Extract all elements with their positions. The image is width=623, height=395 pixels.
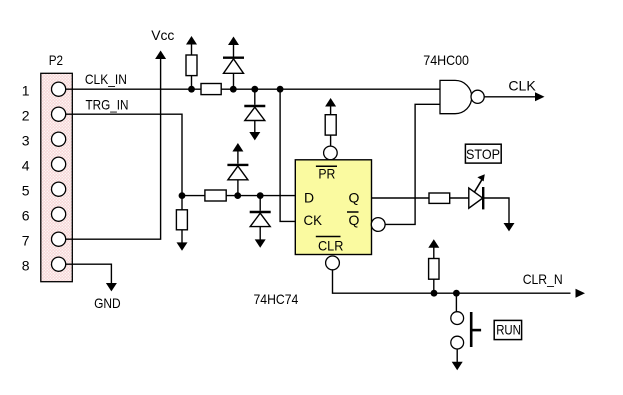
wire (455, 293, 457, 312)
cathode bar (482, 187, 484, 209)
wire (181, 230, 183, 244)
U2 CLR inversion bubble (326, 256, 340, 270)
actuator bar (470, 312, 473, 347)
wire (237, 180, 239, 196)
svg-text:D: D (304, 190, 314, 206)
diode D2 clamp to GND (244, 89, 265, 140)
anode triangle (224, 59, 244, 73)
power Vcc arrow (325, 98, 336, 107)
wire CLK_IN pin1 to NAND top input (66, 88, 440, 90)
wire (259, 227, 261, 241)
wire (259, 196, 261, 211)
power Vcc arrow (428, 239, 439, 248)
svg-text:STOP: STOP (466, 146, 500, 162)
arrow CLR_N (576, 289, 586, 298)
pin 4 (22, 157, 66, 174)
svg-text:P2: P2 (49, 52, 63, 68)
U2 PR inversion bubble (324, 146, 338, 160)
svg-text:4: 4 (22, 158, 30, 174)
svg-text:Q: Q (349, 212, 360, 228)
contact circle (451, 312, 464, 325)
anode triangle (245, 107, 265, 120)
resistor body (325, 115, 336, 135)
wire CLK_IN down to CK input (280, 89, 295, 221)
pin 1 (22, 82, 66, 99)
power Vcc arrow (228, 37, 239, 46)
resistor body (186, 55, 197, 76)
ground arrow pin8 (106, 283, 117, 291)
svg-text:CK: CK (304, 212, 323, 228)
wire TRG_IN pin2 down to D line (66, 114, 182, 195)
cathode bar (227, 164, 248, 166)
cathode bar (223, 57, 244, 59)
nand gate U1 74HC00 (440, 80, 484, 113)
junction node (188, 86, 195, 93)
wire (181, 196, 183, 210)
wire pin7 to Vcc (66, 58, 161, 239)
pin 2 (22, 107, 66, 124)
svg-text:1: 1 (22, 83, 30, 99)
wire (191, 76, 193, 90)
svg-text:TRG_IN: TRG_IN (86, 97, 129, 113)
LED D5 (469, 174, 485, 209)
cathode bar (250, 211, 271, 213)
power Vcc arrow (186, 36, 197, 45)
pin 8 (22, 257, 66, 274)
junction node (234, 192, 241, 199)
junction node (230, 86, 237, 93)
svg-text:CLK: CLK (508, 78, 536, 94)
switch S1 RUN pushbutton (451, 293, 481, 370)
ground arrow (255, 239, 266, 247)
diode D3 clamp to Vcc (227, 143, 248, 196)
wire (191, 44, 193, 56)
resistor R7 LED series (429, 193, 450, 203)
label RUN (494, 320, 521, 339)
svg-text:2: 2 (22, 108, 30, 124)
wire Qbar to NAND bottom input (385, 104, 440, 224)
wire (456, 349, 458, 363)
LED arrow head (477, 174, 484, 181)
wire (433, 247, 435, 259)
power Vcc arrow (155, 51, 166, 60)
anode triangle (250, 213, 270, 226)
cathode bar (244, 105, 265, 107)
svg-text:RUN: RUN (496, 322, 521, 338)
svg-text:3: 3 (22, 133, 30, 149)
svg-text:5: 5 (22, 183, 30, 199)
label STOP (465, 144, 501, 163)
svg-text:Q: Q (349, 190, 360, 206)
junction node (251, 86, 258, 93)
resistor R4 series on D line (205, 190, 226, 201)
wire CLK output (484, 96, 536, 98)
U2 label CLR with overline (316, 237, 344, 254)
junction node (431, 290, 438, 297)
junction node (453, 290, 460, 297)
svg-text:GND: GND (94, 295, 121, 311)
svg-text:74HC74: 74HC74 (254, 291, 299, 307)
flip-flop U2 74HC74 body (295, 160, 371, 255)
pin 5 (22, 182, 66, 199)
wire CLR to CLR_N (333, 270, 571, 293)
anode triangle (228, 166, 248, 180)
wire (254, 121, 256, 134)
svg-text:Vcc: Vcc (151, 27, 174, 43)
diode D1 clamp to Vcc (223, 37, 244, 90)
resistor R3 pull-down on D (176, 196, 187, 251)
contact circle (451, 336, 464, 349)
pin 6 (22, 207, 66, 224)
U2 Qbar inversion bubble (371, 218, 385, 232)
svg-text:PR: PR (318, 166, 335, 182)
resistor R1 pull-up on CLK_IN (186, 36, 197, 89)
pin 3 (22, 132, 66, 149)
U2 label Qbar with overline (347, 212, 360, 228)
wire D line (182, 195, 295, 197)
resistor body (429, 259, 439, 280)
wire (330, 135, 332, 146)
svg-text:74HC00: 74HC00 (423, 52, 469, 68)
power Vcc arrow (232, 143, 243, 152)
actuator tick (471, 329, 481, 332)
ground arrow (249, 132, 260, 140)
svg-text:CLK_IN: CLK_IN (85, 71, 127, 87)
LED arrow stem (475, 180, 483, 193)
junction node (179, 192, 186, 199)
svg-text:CLR_N: CLR_N (523, 271, 563, 287)
connector P2 body (41, 73, 73, 281)
resistor body (176, 210, 187, 230)
svg-text:6: 6 (22, 208, 30, 224)
resistor R2 series on CLK_IN (201, 84, 221, 95)
junction node (257, 192, 264, 199)
wire (237, 151, 239, 164)
ground arrow LED (504, 223, 515, 231)
junction node (277, 86, 284, 93)
wire (233, 73, 235, 89)
U2 label PR with overline (316, 166, 337, 182)
wire (330, 106, 332, 115)
anode triangle (469, 188, 483, 208)
ground arrow (177, 242, 188, 250)
resistor R5 PR pull-up (325, 98, 336, 146)
pin 7 (22, 232, 66, 249)
diode D4 clamp to GND (250, 196, 271, 248)
svg-text:7: 7 (22, 233, 30, 249)
resistor R6 pull-up on CLR_N (428, 239, 439, 293)
svg-text:8: 8 (22, 258, 30, 274)
wire (233, 44, 235, 57)
arrow CLK (535, 92, 545, 101)
svg-text:CLR: CLR (318, 238, 343, 254)
wire pin8 to GND (66, 264, 112, 284)
wire (254, 89, 256, 105)
ground arrow (452, 362, 463, 370)
wire (433, 279, 435, 293)
wire Q output to LED branch (372, 198, 510, 224)
